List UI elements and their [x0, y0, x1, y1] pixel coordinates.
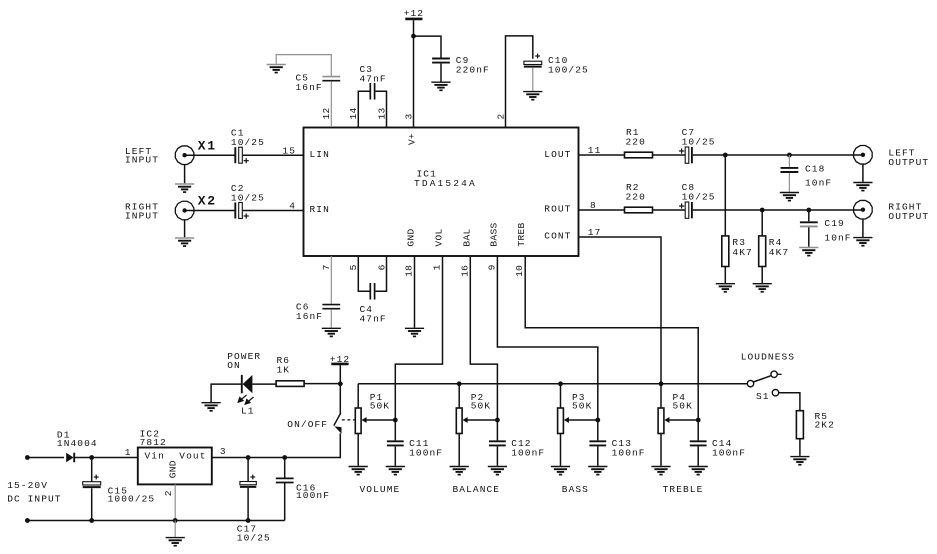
- svg-text:10: 10: [514, 265, 525, 277]
- wire pin5 to C4: [358, 256, 369, 291]
- switch S1 blade end stub: [777, 373, 781, 375]
- connector X1: [175, 146, 194, 165]
- BALANCE section label: [452, 484, 500, 495]
- svg-text:5: 5: [348, 264, 359, 270]
- svg-text:BALANCE: BALANCE: [452, 484, 500, 495]
- R4 label: [769, 237, 783, 248]
- P3 wiper arrow: [564, 417, 598, 423]
- capacitor C14 plates: [690, 441, 707, 445]
- wire R3 top: [724, 155, 726, 236]
- C2 plus sign: [244, 213, 249, 218]
- ground C10: [523, 92, 542, 100]
- svg-text:4K7: 4K7: [732, 247, 752, 258]
- C8 label: [682, 182, 696, 193]
- wire R2 to C8: [653, 209, 686, 211]
- svg-text:ROUT: ROUT: [544, 204, 571, 215]
- LED L1: [242, 375, 253, 393]
- C8 value 10/25: [682, 192, 716, 203]
- D1 label: [57, 430, 71, 441]
- pin 9 number: [486, 264, 497, 270]
- connector X2: [175, 201, 194, 220]
- resistor R4: [759, 236, 766, 267]
- ground LED: [202, 403, 221, 411]
- potentiometer P2 body: [456, 408, 462, 434]
- ground X4: [853, 238, 872, 246]
- pin 3 label IC2: [220, 446, 227, 457]
- capacitor C18 plates: [781, 168, 799, 172]
- IC2 value 7812: [140, 437, 167, 448]
- svg-text:ON: ON: [227, 360, 241, 371]
- resistor R1: [625, 152, 653, 158]
- resistor R6: [276, 381, 304, 387]
- wire C17 down: [247, 458, 249, 482]
- pin 8 number: [590, 200, 597, 211]
- wire pin2 to C10: [506, 36, 533, 127]
- +12 supply label (bottom): [330, 354, 350, 365]
- capacitor C19 plates: [800, 222, 818, 226]
- pin 15 number: [282, 145, 296, 156]
- wire C11 top: [394, 420, 396, 440]
- svg-text:CONT: CONT: [544, 231, 571, 242]
- wire C12 to ground: [496, 446, 498, 465]
- svg-text:10/25: 10/25: [682, 192, 716, 203]
- pin name LOUT: [544, 149, 571, 160]
- +12 supply bar (bottom): [331, 363, 348, 366]
- wire C18 to ground: [788, 173, 790, 192]
- C5 label: [296, 73, 310, 84]
- C3 label: [360, 64, 374, 75]
- wire IC2 GND pin: [174, 484, 176, 520]
- wire C10 to ground: [532, 68, 534, 91]
- pin name V+: [407, 133, 418, 145]
- svg-text:+12: +12: [404, 8, 424, 19]
- C17 value 10/25: [237, 532, 271, 543]
- DC input terminal top: [25, 455, 30, 460]
- connector X3: [854, 146, 873, 165]
- C13 label: [612, 438, 632, 449]
- svg-text:220: 220: [626, 137, 646, 148]
- pin 11 number: [588, 145, 602, 156]
- C17 label: [237, 524, 257, 535]
- node +12/R6/switch: [338, 381, 343, 386]
- TREBLE section label: [663, 484, 704, 495]
- C2 label: [231, 183, 245, 194]
- node P4 wiper: [696, 418, 701, 423]
- node P3 wiper: [595, 418, 600, 423]
- wire R5 to ground: [799, 439, 801, 456]
- P1 value 50K: [370, 401, 390, 412]
- C6 value 16nF: [296, 311, 323, 322]
- P2 label: [471, 392, 485, 403]
- wire pin8 to R2: [579, 209, 625, 211]
- X2 label: [198, 194, 217, 209]
- R3 label: [732, 237, 746, 248]
- node C18 tap: [787, 153, 792, 158]
- wire +12 bar to node: [339, 365, 341, 383]
- svg-text:220: 220: [626, 192, 646, 203]
- ground R3: [716, 284, 735, 292]
- capacitor C3 plates: [370, 83, 374, 100]
- svg-text:100nF: 100nF: [712, 447, 746, 458]
- svg-text:2: 2: [163, 490, 174, 496]
- R1 label: [626, 127, 640, 138]
- pin 16 number: [459, 265, 470, 277]
- node R4 tap: [760, 208, 765, 213]
- svg-text:17: 17: [588, 227, 602, 238]
- svg-text:15: 15: [282, 145, 296, 156]
- svg-text:INPUT: INPUT: [125, 155, 159, 166]
- switch S1 throw contact: [772, 390, 778, 396]
- ground X3: [853, 183, 872, 191]
- wire ground to C5: [276, 55, 331, 76]
- wire C17 to bottom rail: [247, 488, 249, 521]
- capacitor C2 electrolytic: [235, 203, 242, 219]
- ON/OFF switch blade: [334, 413, 341, 426]
- wire C19 top: [808, 210, 810, 221]
- svg-text:Vout: Vout: [179, 450, 206, 461]
- C4 label: [360, 304, 374, 315]
- IC2 7812 body: [138, 448, 212, 485]
- C2 value 10/25: [231, 192, 265, 203]
- svg-text:OUTPUT: OUTPUT: [888, 211, 929, 222]
- pin 13 number: [376, 107, 387, 119]
- svg-text:12: 12: [321, 107, 332, 119]
- C1 value 10/25: [231, 137, 265, 148]
- ground C11: [386, 467, 405, 475]
- ground R4: [753, 284, 772, 292]
- C15 label: [108, 485, 128, 496]
- Vout label: [179, 450, 206, 461]
- capacitor C17 electrolytic: [240, 482, 256, 487]
- C10 label: [548, 55, 568, 66]
- IC1 value TDA1524A: [414, 178, 477, 189]
- capacitor C6 plates: [322, 305, 340, 309]
- svg-text:C19: C19: [824, 218, 844, 229]
- wire gnd rail to ground: [174, 521, 176, 537]
- ground C5: [267, 65, 286, 73]
- svg-text:4: 4: [289, 201, 296, 212]
- wire P2 top: [458, 384, 460, 408]
- wire C2 to pin 4: [243, 210, 304, 212]
- C12 label: [511, 438, 531, 449]
- svg-text:18: 18: [404, 265, 415, 277]
- node R3 tap left: [723, 153, 728, 158]
- C10 plus sign: [535, 54, 540, 59]
- C16 value 100nF: [296, 490, 330, 501]
- wire R4 top: [761, 210, 763, 236]
- svg-text:50K: 50K: [572, 401, 592, 412]
- wire P1 bottom to ground: [357, 434, 359, 466]
- C10 value 100/25: [548, 64, 589, 75]
- LED arrows: [238, 395, 253, 404]
- svg-text:TREBLE: TREBLE: [663, 484, 704, 495]
- pin name VOL: [434, 228, 445, 246]
- pin name BAL: [461, 228, 472, 246]
- wire R3 to ground: [724, 267, 726, 284]
- wire X2 to C2: [185, 210, 235, 212]
- wire pin10 TREB to P4 wiper: [525, 256, 698, 420]
- svg-text:VOL: VOL: [434, 228, 445, 246]
- wire C11 to ground: [394, 446, 396, 465]
- pin 3 number: [403, 113, 414, 119]
- wire C7 to X3: [693, 154, 863, 156]
- pin 10 number: [514, 265, 525, 277]
- capacitor C12 plates: [489, 441, 506, 445]
- ground C14: [689, 467, 708, 475]
- POWER ON label: [227, 351, 261, 371]
- C19 label: [824, 218, 844, 229]
- pin name RIN: [310, 204, 330, 215]
- wire R1 to C7: [653, 154, 686, 156]
- wire C16 to bottom rail: [284, 483, 286, 521]
- pin 12 number: [321, 107, 332, 119]
- svg-text:C18: C18: [805, 164, 825, 175]
- ground C12: [488, 467, 507, 475]
- wire C9 to ground: [440, 64, 442, 82]
- svg-text:100nF: 100nF: [409, 447, 443, 458]
- capacitor C10 electrolytic: [524, 61, 542, 66]
- svg-text:47nF: 47nF: [360, 73, 387, 84]
- Vin label: [145, 450, 165, 461]
- pin 5 number: [348, 264, 359, 270]
- svg-text:DC INPUT: DC INPUT: [7, 494, 61, 505]
- potentiometer P1 body: [355, 408, 361, 434]
- wire D1 to IC2: [74, 457, 138, 459]
- pin 14 number: [348, 107, 359, 119]
- pin 17 number: [588, 227, 602, 238]
- svg-text:3: 3: [220, 446, 227, 457]
- svg-text:TREB: TREB: [516, 222, 527, 246]
- capacitor C1 electrolytic: [235, 147, 242, 163]
- S1 label: [756, 391, 770, 402]
- node C17 top: [246, 455, 251, 460]
- ground X1: [175, 184, 194, 192]
- wire C13 top: [597, 420, 599, 440]
- C15 plus sign: [94, 475, 99, 480]
- VOLUME section label: [359, 484, 400, 495]
- wire C8 to X4: [693, 209, 863, 211]
- R6 value 1K: [277, 365, 291, 376]
- svg-text:10/25: 10/25: [231, 192, 265, 203]
- svg-text:3: 3: [403, 113, 414, 119]
- wire C13 to ground: [597, 446, 599, 465]
- wire pin7 to C6: [330, 256, 332, 304]
- svg-text:2: 2: [495, 113, 506, 119]
- wire P1 top: [357, 384, 359, 408]
- wire C19 to ground: [808, 227, 810, 246]
- svg-text:8: 8: [590, 200, 597, 211]
- svg-text:1K: 1K: [277, 365, 291, 376]
- node C19 tap: [806, 208, 811, 213]
- wire R6 to +12 node: [304, 383, 340, 385]
- wire C3 to pin 13: [375, 91, 386, 127]
- C9 label: [456, 55, 470, 66]
- pin 2 number: [495, 113, 506, 119]
- wire pin18 GND to ground: [414, 256, 416, 328]
- svg-text:50K: 50K: [673, 401, 693, 412]
- pin name GND: [406, 228, 417, 246]
- wire ground to LED: [211, 384, 241, 402]
- svg-text:10/25: 10/25: [682, 137, 716, 148]
- ON/OFF switch contact arrow: [334, 426, 341, 434]
- capacitor C8 electrolytic: [685, 202, 692, 218]
- ground R5: [790, 457, 809, 465]
- ground P1: [349, 467, 368, 475]
- node CONT rail P4: [659, 381, 664, 386]
- pin name TREB: [516, 222, 527, 246]
- +12 supply bar (top): [405, 18, 422, 21]
- ground C19: [799, 248, 818, 256]
- wire C14 to ground: [697, 446, 699, 465]
- wire node to switch: [339, 384, 341, 414]
- svg-text:OUTPUT: OUTPUT: [888, 157, 929, 168]
- resistor R2: [625, 207, 653, 213]
- wire C14 top: [697, 420, 699, 440]
- svg-text:1: 1: [125, 447, 132, 458]
- svg-text:BASS: BASS: [562, 484, 589, 495]
- svg-text:1N4004: 1N4004: [57, 438, 98, 449]
- wire pin11 to R1: [579, 154, 625, 156]
- node rail P3 top: [558, 381, 563, 386]
- RIGHT OUTPUT label: [888, 202, 929, 223]
- C11 label: [409, 438, 429, 449]
- switch-pot link dashed: [342, 419, 356, 421]
- svg-text:16: 16: [459, 265, 470, 277]
- switch S1 blade: [753, 376, 771, 382]
- wire X3 to ground: [862, 164, 864, 182]
- ground C6: [322, 328, 341, 336]
- bottom rail wire: [27, 520, 284, 522]
- P1 wiper arrow: [362, 417, 396, 423]
- svg-text:6: 6: [376, 264, 387, 270]
- wire Vout to switch: [212, 433, 340, 457]
- wire X1 to ground: [184, 165, 186, 184]
- P4 wiper arrow: [664, 417, 698, 423]
- C16 label: [296, 482, 316, 493]
- wire C1 to pin 15: [243, 154, 304, 156]
- svg-text:LOUT: LOUT: [544, 149, 571, 160]
- C12 value 100nF: [511, 447, 545, 458]
- C14 label: [712, 438, 732, 449]
- svg-text:100nF: 100nF: [612, 447, 646, 458]
- svg-text:9: 9: [486, 264, 497, 270]
- ON/OFF label: [287, 419, 328, 430]
- svg-text:7812: 7812: [140, 437, 167, 448]
- R2 value 220: [626, 192, 646, 203]
- svg-text:RIN: RIN: [310, 204, 330, 215]
- node C17 bottom: [246, 518, 251, 523]
- svg-text:Vin: Vin: [145, 450, 165, 461]
- IC2 label: [140, 428, 160, 439]
- ground pin18: [405, 328, 424, 336]
- svg-text:100/25: 100/25: [548, 64, 589, 75]
- node IC2 gnd: [173, 518, 178, 523]
- svg-text:BAL: BAL: [461, 228, 472, 246]
- node C15 top: [89, 455, 94, 460]
- wire R4 to ground: [761, 267, 763, 284]
- svg-text:S1: S1: [756, 391, 770, 402]
- ground P3: [551, 467, 570, 475]
- wire C4 to pin 6: [375, 256, 386, 291]
- IC U1 TDA1524A body: [304, 128, 579, 257]
- LEFT INPUT label: [125, 146, 159, 166]
- C14 value 100nF: [712, 447, 746, 458]
- wire C6 to ground: [330, 309, 332, 327]
- svg-text:14: 14: [348, 107, 359, 119]
- ground X2: [175, 238, 194, 246]
- C7 value 10/25: [682, 137, 716, 148]
- svg-text:LIN: LIN: [310, 149, 330, 160]
- resistor R3: [722, 236, 729, 267]
- wire terminal to D1: [27, 457, 64, 459]
- capacitor C7 electrolytic: [685, 147, 692, 163]
- pin 4 number: [289, 201, 296, 212]
- node rail P2 top: [457, 381, 462, 386]
- svg-text:11: 11: [588, 145, 602, 156]
- capacitor C16 plates: [276, 478, 294, 482]
- wire X4 to ground: [862, 219, 864, 237]
- wire P4 bottom to ground: [660, 434, 662, 466]
- pin 18 number: [404, 265, 415, 277]
- P2 value 50K: [471, 401, 491, 412]
- RIGHT INPUT label: [125, 201, 159, 221]
- svg-text:16nF: 16nF: [296, 82, 323, 93]
- P1 label: [370, 392, 384, 403]
- wire pin14 to C3: [358, 91, 369, 127]
- diode D1: [66, 453, 74, 463]
- pin name BASS: [488, 222, 499, 246]
- R5 label: [815, 411, 829, 422]
- wire C18 top: [788, 155, 790, 167]
- P3 value 50K: [572, 401, 592, 412]
- R1 value 220: [626, 137, 646, 148]
- svg-text:16nF: 16nF: [296, 311, 323, 322]
- 15-20V DC INPUT label: [7, 480, 61, 505]
- wire X2 to ground: [184, 220, 186, 237]
- pin 2 label IC2: [163, 490, 174, 496]
- svg-text:100nF: 100nF: [511, 447, 545, 458]
- svg-text:L1: L1: [241, 406, 255, 417]
- node P1 wiper: [393, 418, 398, 423]
- wire CONT pin17: [579, 237, 662, 384]
- svg-text:VOLUME: VOLUME: [359, 484, 400, 495]
- capacitor C4 plates: [370, 283, 374, 300]
- R6 label: [277, 355, 291, 366]
- C15 value 1000/25: [108, 494, 156, 505]
- svg-text:4K7: 4K7: [769, 247, 789, 258]
- node +12/pin3: [411, 34, 416, 39]
- DC input terminal bottom: [25, 518, 30, 523]
- P2 wiper arrow: [463, 417, 498, 423]
- svg-text:220nF: 220nF: [456, 64, 490, 75]
- svg-text:INPUT: INPUT: [125, 210, 159, 221]
- svg-text:10nF: 10nF: [805, 177, 832, 188]
- wire C12 top: [496, 420, 498, 440]
- LEFT OUTPUT label: [888, 147, 929, 168]
- ground P4: [651, 467, 670, 475]
- svg-text:10nF: 10nF: [824, 232, 851, 243]
- GND label IC2: [167, 460, 178, 478]
- pin 1 label IC2: [125, 447, 132, 458]
- wire S1 to R5: [779, 393, 800, 411]
- capacitor C5 plates: [322, 77, 340, 81]
- C9 value 220nF: [456, 64, 490, 75]
- node C15 bottom: [89, 518, 94, 523]
- wire C5 to pin 12: [330, 81, 332, 127]
- wire pin1 VOL to P1 wiper: [395, 256, 442, 420]
- C1 label: [231, 127, 245, 138]
- svg-text:ON/OFF: ON/OFF: [287, 419, 328, 430]
